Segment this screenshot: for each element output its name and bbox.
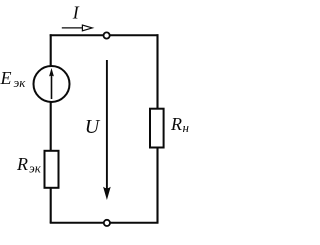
svg-text:R: R: [170, 114, 182, 134]
svg-text:E: E: [0, 68, 12, 88]
svg-text:I: I: [72, 3, 80, 23]
svg-text:U: U: [85, 116, 101, 138]
svg-text:эк: эк: [29, 160, 42, 175]
svg-text:R: R: [16, 154, 28, 174]
svg-text:эк: эк: [14, 75, 27, 90]
svg-text:н: н: [183, 120, 189, 135]
